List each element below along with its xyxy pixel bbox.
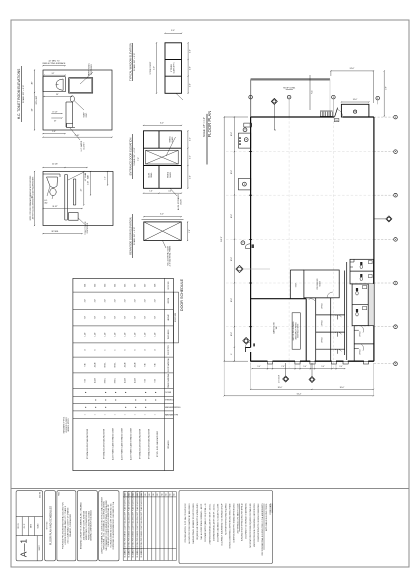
svg-text:2007 INTERNATIONAL BUILDING CO: 2007 INTERNATIONAL BUILDING CODE W/ FLA.… [261,503,264,556]
vestibule bump-out [341,104,369,117]
svg-text:1: 1 [135,414,137,415]
svg-text:REAR/SIDE DOOR ELEVATION: REAR/SIDE DOOR ELEVATION [129,217,133,255]
svg-text:1-3/4": 1-3/4" [95,332,97,337]
svg-text:NO SPRAY FIREPROOFING REQUIRED: NO SPRAY FIREPROOFING REQUIRED PER TABLE… [249,503,252,547]
fixture 3 (fountain) [241,241,245,245]
svg-text:THRESHOLD: THRESHOLD [165,400,175,402]
svg-text:HINGES, STOPS: HINGES, STOPS [68,418,70,432]
canopy above [251,78,330,80]
gridlines [226,151,374,153]
title block: project cell [57,491,76,561]
svg-text:1: 1 [85,414,87,415]
svg-text:122'-8": 122'-8" [221,236,223,242]
svg-text:1'-8": 1'-8" [190,66,192,70]
dim 2-8 right [383,71,385,116]
svg-text:OCCUPANT LOAD (TABLE 7.3.1.2): OCCUPANT LOAD (TABLE 7.3.1.2) AS FOLLOWS… [216,503,219,542]
svg-text:20'-0": 20'-0" [231,131,233,136]
window elevation [165,43,182,94]
keynote diamond 1 [271,98,277,104]
title block: sheet cell [16,491,42,561]
svg-text:DWG NO.: DWG NO. [40,491,42,498]
svg-text:20'-0": 20'-0" [231,331,233,336]
svg-text:CLOSET: CLOSET [83,142,85,150]
svg-text:ORLANDO, FLORIDA 32805: ORLANDO, FLORIDA 32805 [69,514,72,537]
svg-text:FLOOR PLAN: FLOOR PLAN [207,111,212,138]
svg-text:100: 100 [335,120,338,122]
svg-text:05-10-10: 05-10-10 [129,551,131,557]
svg-text:3'-0": 3'-0" [339,366,343,368]
svg-text:STEEL: STEEL [105,378,107,383]
svg-text:40": 40" [31,81,33,84]
svg-text:OFFICE: OFFICE [322,320,324,326]
toilet block top right [350,259,374,284]
left dimension lines [223,117,225,361]
svg-text:H.M.: H.M. [145,363,147,367]
svg-text:3'-0": 3'-0" [95,299,97,303]
svg-text:REFLECTING SURFACE: REFLECTING SURFACE [43,62,66,65]
basin profile [56,79,63,90]
svg-text:ALLOWED PER CODE CHAPTER 10, T: ALLOWED PER CODE CHAPTER 10, TABLE 1015.… [188,503,191,543]
svg-text:7'-0": 7'-0" [138,157,140,161]
svg-text:H.M.: H.M. [155,379,157,383]
svg-text:SCALE: 1/4" = 1'-0": SCALE: 1/4" = 1'-0" [133,53,136,71]
svg-text:20'-0": 20'-0" [231,256,233,261]
svg-text:3'-0": 3'-0" [145,299,147,303]
svg-text:7'-6": 7'-6" [281,366,285,368]
svg-text:& 16 GA. METAL FRAME: & 16 GA. METAL FRAME [169,245,172,266]
svg-text:B: B [135,349,137,350]
svg-text:B: B [125,349,127,350]
svg-text:GLASS: GLASS [169,171,172,178]
left dimension line inner [233,117,235,361]
svg-text:WAREHOUSE: WAREHOUSE [273,321,276,334]
wall warehouse/office [251,298,307,300]
svg-text:ROOM: ROOM [319,281,321,287]
svg-text:SCALE: 1/4" = 1'-0": SCALE: 1/4" = 1'-0" [133,227,136,245]
svg-text:SEE STRUCT. NOTES: SEE STRUCT. NOTES [297,324,299,338]
paper towel dispenser [69,78,93,93]
svg-text:36": 36" [31,195,33,198]
svg-text:105: 105 [125,284,127,287]
svg-text:H.M.: H.M. [85,363,87,367]
svg-text:2 WAREHOUSE AREA 14,260 SF / 5: 2 WAREHOUSE AREA 14,260 SF / 500 SF = 29… [208,503,211,544]
svg-text:PANEL: PANEL [150,172,153,177]
wc fixtures [360,262,362,265]
title block separator [11,488,409,490]
svg-text:H.C. TOILET ROOM ELEVATIONS: H.C. TOILET ROOM ELEVATIONS [17,68,21,119]
svg-text:DOOR SCHEDULE: DOOR SCHEDULE [180,278,184,311]
svg-text:H.M.: H.M. [155,363,157,367]
svg-text:4'-6": 4'-6" [168,191,172,193]
svg-text:OFFICE: OFFICE [322,303,324,309]
svg-text:7'-0": 7'-0" [85,316,87,320]
svg-text:30'-0": 30'-0" [340,387,345,389]
corridor walls [344,271,346,356]
notes box [292,313,300,349]
grid bubbles right [394,115,398,119]
title block: revisions table [123,492,176,561]
svg-text:BUILDING IS NOT SPRINKLERED PE: BUILDING IS NOT SPRINKLERED PER NFPA 13 [241,503,244,541]
svg-text:3'-0": 3'-0" [85,299,87,303]
svg-text:OFFICE: OFFICE [360,349,362,355]
svg-text:CK. JF: CK. JF [24,524,26,529]
svg-text:DOOR: DOOR [180,199,182,205]
svg-text:STOR.: STOR. [296,282,298,287]
svg-text:GENERAL CONTRACTOR CGC 012345: GENERAL CONTRACTOR CGC 012345 [90,510,93,541]
svg-text:3'-0": 3'-0" [125,299,127,303]
svg-text:7'-0": 7'-0" [95,316,97,320]
svg-text:1: 1 [95,414,97,415]
svg-text:7'-0": 7'-0" [115,316,117,320]
svg-text:20'-0": 20'-0" [231,213,233,218]
svg-text:7'-0": 7'-0" [155,316,157,320]
conference room [304,270,339,298]
svg-text:7'-0": 7'-0" [105,316,107,320]
svg-text:7'-0": 7'-0" [145,316,147,320]
svg-text:103: 103 [105,284,107,287]
svg-text:SHT. TITLE: SHT. TITLE [46,522,48,530]
svg-text:APPLICABLE BUILDING CODES:: APPLICABLE BUILDING CODES: [265,503,268,531]
code data box [179,491,273,564]
svg-text:ENTRANCE DOOR ELEVATION: ENTRANCE DOOR ELEVATION [129,138,133,176]
svg-text:PROJ.: PROJ. [58,491,60,496]
svg-text:IIB NON-COMBUSTIBLE, UNPROTEC: IIB NON-COMBUSTIBLE, UNPROTECTED STEEL F… [229,503,232,549]
svg-text:OFFICE: OFFICE [322,337,324,343]
svg-text:SCALE: 1/4" = 1'-0": SCALE: 1/4" = 1'-0" [133,147,136,165]
svg-text:UNPROTECTED NON-COMBUSTIBLE,: UNPROTECTED NON-COMBUSTIBLE, UNPROTECTED [254,503,256,547]
svg-text:OCCUPANCY: S-1 STORAGE / B (B: OCCUPANCY: S-1 STORAGE / B (BUSINESS) [245,503,248,539]
svg-text:1-3/4": 1-3/4" [155,332,157,337]
svg-text:CONSTRUCTION TYPE: IIB NON-C: CONSTRUCTION TYPE: IIB NON-COMBUSTIBLE [258,503,260,542]
svg-text:20'-0": 20'-0" [231,169,233,174]
svg-text:3'-0": 3'-0" [171,30,175,32]
svg-text:CONFERENCE: CONFERENCE [317,278,319,289]
dim marks [51,113,62,115]
svg-text:34": 34" [31,108,33,111]
svg-text:DISPENSER: DISPENSER [91,64,93,75]
svg-text:MAX. ALLOWED TRAVEL DISTANCE =: MAX. ALLOWED TRAVEL DISTANCE = 200 FT. [200,503,203,540]
svg-text:7'-0": 7'-0" [135,316,137,320]
svg-text:3'-0": 3'-0" [105,299,107,303]
svg-text:36": 36" [56,94,59,96]
water closet profile [65,102,67,127]
svg-text:3'-0": 3'-0" [135,299,137,303]
svg-text:1'-8": 1'-8" [190,83,192,87]
svg-text:OCCUPANCY: B (BUSINESS) / S-1: OCCUPANCY: B (BUSINESS) / S-1 STORAGE GR… [220,503,223,546]
svg-text:100: 100 [276,327,278,330]
svg-text:H.C.: H.C. [44,200,48,202]
svg-text:SCALE: 1/2" = 1'-0": SCALE: 1/2" = 1'-0" [22,85,25,103]
entry door leaf + arc [335,108,338,117]
grab bars [64,175,66,221]
door schedule table [73,278,173,470]
svg-text:MAXIMUM TRAVEL DISTANCE TO EXI: MAXIMUM TRAVEL DISTANCE TO EXIT PROVIDED [192,503,195,544]
svg-text:OCCUPANT FACTOR (TABLE 7.3.1.2: OCCUPANT FACTOR (TABLE 7.3.1.2) TOTAL = … [204,503,207,542]
svg-text:2'-10": 2'-10" [87,181,89,185]
svg-text:05-10-10: 05-10-10 [141,551,143,557]
wall fixture top [244,123,252,127]
svg-text:108: 108 [155,284,157,287]
svg-text:1'-6": 1'-6" [52,131,56,133]
grid bubbles top [249,95,253,99]
svg-text:R.D.: R.D. [311,90,313,94]
keynote diamond right [386,216,392,222]
elevation: toilet room wall 2 [43,172,113,226]
lavatory front [43,173,60,175]
svg-text:104: 104 [115,284,117,287]
entry steps [320,112,322,117]
svg-text:DOOR NO.: DOOR NO. [168,280,170,289]
R.D. leader [309,75,311,110]
door left bottom [243,338,250,345]
toilet tissue dispenser [69,213,79,221]
svg-text:1'-6": 1'-6" [189,137,191,141]
lavatory counter [43,77,65,92]
svg-text:1 BUSINESS AREA 3,128 SF / 100: 1 BUSINESS AREA 3,128 SF / 100 SF = 32 O… [212,503,215,541]
svg-text:05-10-10: 05-10-10 [133,551,135,557]
entrance door elevation [144,131,182,189]
soap dispenser [70,96,74,102]
svg-text:STORE FRONT: STORE FRONT [150,61,152,75]
svg-text:102: 102 [95,284,97,287]
toilet block mid right [368,284,374,326]
svg-text:PROVIDED APPROX. 75 FT. MAX. T: PROVIDED APPROX. 75 FT. MAX. TO EXIT DOO… [184,503,187,543]
svg-text:1-3/4": 1-3/4" [115,332,117,337]
bottom dimensions [252,368,345,370]
svg-text:BUILDING CONCEPTS OF AMERICA,: BUILDING CONCEPTS OF AMERICA, INC. ORLAN… [80,502,83,549]
svg-text:NO SPRAY FIREPROOFING REQUIRED: NO SPRAY FIREPROOFING REQUIRED [224,503,227,535]
svg-text:24": 24" [52,73,55,75]
wall gridline ticks [249,151,252,153]
svg-text:1'-6": 1'-6" [149,191,153,193]
svg-text:CERTIFICATE OF AUTHORIZATION N: CERTIFICATE OF AUTHORIZATION NO. 5505 ST… [112,501,115,549]
svg-text:106: 106 [135,284,137,287]
svg-text:REMARKS: REMARKS [167,440,170,449]
svg-text:56'-4": 56'-4" [297,393,302,395]
svg-text:5'-0": 5'-0" [303,366,307,368]
svg-text:FLOOR PLAN AND SCHEDULES: FLOOR PLAN AND SCHEDULES [49,506,53,545]
elevation: toilet room wall 1 [43,70,112,130]
svg-text:O.H. DOOR: O.H. DOOR [279,374,281,383]
svg-text:DOOR SIZE: DOOR SIZE [175,312,177,322]
svg-text:3'-0": 3'-0" [160,214,164,216]
svg-text:1-3/4": 1-3/4" [125,332,127,337]
window unit 2 [239,178,251,190]
dim 24ft top [331,70,374,72]
svg-text:2'-8": 2'-8" [386,86,388,90]
svg-text:05-10-10: 05-10-10 [137,551,139,557]
svg-text:5'-4": 5'-4" [257,366,261,368]
svg-text:GLASS (TYP.): GLASS (TYP.) [173,62,176,73]
svg-text:HEIGHT: HEIGHT [168,314,170,320]
svg-text:DOOR MATERIAL: DOOR MATERIAL [167,358,170,372]
svg-text:107: 107 [145,284,147,287]
svg-text:20'-0": 20'-0" [231,297,233,302]
svg-text:101: 101 [85,284,87,287]
svg-text:17"-19": 17"-19" [52,112,58,114]
svg-text:1'-6": 1'-6" [189,155,191,159]
keynote diamond left [236,265,243,272]
svg-text:CONSTRUCTION TYPE: IIB (000): CONSTRUCTION TYPE: IIB (000) UNPROTECTED [234,503,236,543]
svg-text:CLOSER: CLOSER [165,392,172,394]
svg-text:6'-0": 6'-0" [160,122,164,124]
svg-text:7'-0": 7'-0" [125,316,127,320]
svg-text:DR. CV: DR. CV [18,523,20,528]
svg-text:OFFICE: OFFICE [360,331,362,337]
building outline walls [251,116,335,118]
svg-text:STEEL: STEEL [115,378,117,383]
svg-text:5'-0": 5'-0" [153,66,155,70]
svg-text:FRAME MATERIAL: FRAME MATERIAL [167,373,170,388]
svg-text:16'-0": 16'-0" [353,99,358,101]
office column [315,298,317,361]
window unit 1 [239,133,251,148]
grid bubble top right [376,96,380,100]
door number tag [334,119,339,122]
svg-text:REQUIRED EXIT CAPACITY IS WITH: REQUIRED EXIT CAPACITY IS WITHIN LIMITS [196,503,199,540]
svg-text:1-3/4": 1-3/4" [85,332,87,337]
svg-text:3'-0": 3'-0" [155,299,157,303]
svg-text:1: 1 [125,414,127,415]
svg-text:4'-0": 4'-0" [189,175,191,179]
svg-text:5'-4": 5'-4" [321,366,325,368]
transom glass panel [146,150,179,164]
svg-text:30'-0": 30'-0" [278,387,283,389]
svg-text:2007 NFPA 101 LIFE SAFETY CODE: 2007 NFPA 101 LIFE SAFETY CODE [237,503,240,534]
svg-text:A—1: A—1 [20,538,29,557]
svg-text:ROOF CONN.: ROOF CONN. [283,87,296,89]
svg-text:1: 1 [155,414,157,415]
svg-text:20 1/4": 20 1/4" [52,164,58,166]
svg-text:33": 33" [81,188,83,191]
title block: company cell [77,491,97,561]
svg-text:1: 1 [105,414,107,415]
svg-text:1: 1 [145,414,147,415]
svg-text:STEEL: STEEL [115,362,117,367]
svg-text:TYPICAL WINDOW ELEVATION: TYPICAL WINDOW ELEVATION [129,43,133,81]
svg-text:WIDTH: WIDTH [168,297,170,303]
title block: drawing title cell [45,491,56,561]
svg-text:1-3/4": 1-3/4" [145,332,147,337]
svg-text:MTG. HGT.: MTG. HGT. [36,95,38,104]
svg-text:CODE DATA: CODE DATA [269,503,272,515]
svg-text:36 1/2": 36 1/2" [52,206,58,208]
svg-text:1-3/4": 1-3/4" [105,332,107,337]
svg-text:DOOR TYPE: DOOR TYPE [168,344,170,355]
storage room [289,270,291,299]
svg-text:24'-0": 24'-0" [350,68,355,70]
svg-text:3'-0": 3'-0" [115,299,117,303]
svg-text:DISP.: DISP. [86,112,88,117]
svg-text:STEEL: STEEL [105,362,107,367]
svg-text:1'-8": 1'-8" [190,49,192,53]
keynote diamonds bottom [283,376,289,382]
svg-text:H.M.: H.M. [145,379,147,383]
svg-text:7'-0": 7'-0" [189,229,191,233]
offices bottom right [354,325,374,327]
rear/side door elevation [144,222,181,241]
svg-text:36" MIN.: 36" MIN. [51,231,59,233]
svg-text:SHEET: SHEET [39,545,41,550]
svg-text:1'-6": 1'-6" [104,176,106,180]
svg-text:05-10-10: 05-10-10 [125,551,127,557]
svg-text:SCALE: 1/8" = 1'-0": SCALE: 1/8" = 1'-0" [203,117,206,137]
svg-text:42" MIN. TO: 42" MIN. TO [49,60,60,62]
door leaf marks below wall [267,361,272,364]
svg-text:B: B [95,349,97,350]
title block: engineer cell [99,491,119,561]
svg-text:THICKNESS: THICKNESS [168,329,170,340]
svg-text:DISPENSER: DISPENSER [87,222,89,233]
svg-text:1-3/4": 1-3/4" [135,332,137,337]
svg-text:1: 1 [115,414,117,415]
svg-text:H.M.: H.M. [85,379,87,383]
